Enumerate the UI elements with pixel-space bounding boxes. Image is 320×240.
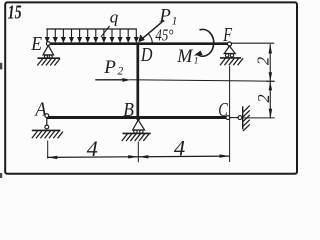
support B roller circles bbox=[134, 130, 137, 133]
bottom dimension arrowhead at A bbox=[48, 156, 58, 159]
support C link right pin circle bbox=[238, 116, 242, 120]
support A ground line bbox=[32, 129, 61, 131]
support C wall line bbox=[242, 106, 244, 129]
extension line right of wall at C level bbox=[244, 117, 275, 119]
vertical extension line below F / through C bbox=[229, 66, 231, 162]
support C link left pin circle bbox=[226, 116, 230, 120]
support F roller circles bbox=[225, 54, 228, 57]
force P2 arrow bbox=[95, 79, 124, 81]
svg-text:P: P bbox=[159, 7, 171, 27]
left-edge scan mark 2 bbox=[0, 173, 2, 178]
moment M1 arrowhead bbox=[194, 51, 203, 56]
right dimension line bbox=[269, 44, 271, 118]
svg-text:45°: 45° bbox=[155, 26, 173, 45]
support E ground line bbox=[38, 57, 61, 59]
node B junction dot bbox=[137, 117, 140, 120]
support B ground line bbox=[123, 132, 151, 134]
support E hatching bbox=[37, 59, 60, 66]
support C link bar bbox=[230, 117, 238, 119]
support F pin circle bbox=[228, 42, 232, 46]
top beam E-D-F bbox=[46, 42, 231, 45]
right dimension arrowheads middle bbox=[269, 72, 273, 81]
right dimension arrowhead bottom (down) bbox=[269, 109, 273, 119]
bottom dimension arrowheads at B bbox=[128, 155, 138, 158]
support A link bar bbox=[46, 118, 48, 126]
45 degree angle arc bbox=[149, 34, 153, 43]
svg-text:E: E bbox=[30, 33, 42, 55]
left-edge scan mark 1 bbox=[0, 63, 2, 70]
support E triangle bbox=[43, 45, 54, 55]
right dimension arrowhead top (up) bbox=[269, 44, 273, 54]
bottom dimension arrowhead at C bbox=[220, 154, 230, 157]
column D-B bbox=[136, 42, 139, 119]
svg-text:2: 2 bbox=[118, 65, 124, 77]
extension line below A bbox=[47, 141, 49, 159]
mid-height extension line bbox=[130, 80, 275, 81]
support C wall hatching bbox=[243, 106, 250, 132]
q leader line bbox=[101, 26, 110, 37]
support A lower pin circle bbox=[45, 125, 49, 129]
support A upper pin circle bbox=[45, 114, 49, 118]
svg-text:4: 4 bbox=[174, 135, 185, 160]
moment M1 arc bbox=[196, 29, 213, 56]
border frame bbox=[5, 2, 297, 173]
bottom dimension line bbox=[47, 156, 229, 157]
top beam thin extension to right dimension line bbox=[231, 42, 274, 44]
distributed load q top line bbox=[46, 28, 137, 30]
svg-text:4: 4 bbox=[87, 136, 98, 161]
svg-text:D: D bbox=[140, 44, 153, 66]
svg-text:15: 15 bbox=[8, 2, 22, 24]
support E roller circles bbox=[44, 55, 47, 58]
svg-text:M: M bbox=[176, 46, 193, 67]
extension line below B bbox=[137, 142, 139, 163]
svg-text:1: 1 bbox=[194, 57, 199, 67]
support F triangle bbox=[224, 46, 235, 54]
distributed load q arrows bbox=[46, 29, 139, 42]
svg-text:B: B bbox=[123, 99, 134, 121]
support B triangle bbox=[133, 120, 145, 130]
right dimension middle tick bbox=[266, 80, 275, 82]
support A hatching bbox=[32, 131, 63, 138]
svg-text:q: q bbox=[110, 8, 119, 27]
svg-text:2: 2 bbox=[254, 94, 273, 102]
bottom beam A-B-C bbox=[47, 116, 226, 119]
force P1 arrowhead bbox=[139, 35, 144, 42]
support F hatching bbox=[220, 58, 243, 65]
svg-text:P: P bbox=[103, 57, 116, 78]
force P1 line bbox=[140, 20, 164, 40]
support F ground line bbox=[220, 57, 241, 59]
support E pin circle bbox=[46, 42, 50, 46]
svg-text:2: 2 bbox=[253, 57, 272, 65]
support B hatching bbox=[122, 134, 149, 141]
